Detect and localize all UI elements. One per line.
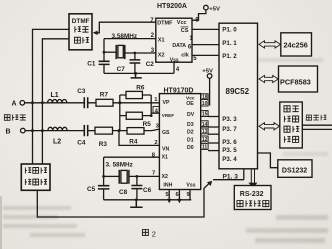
wire A line (25, 102, 160, 104)
svg-text:C4: C4 (77, 140, 86, 147)
wire Vss bottom rail (top crystal) (104, 62, 174, 73)
label 通信 (module) (284, 126, 290, 132)
svg-text:clk: clk (181, 53, 190, 59)
svg-text:24c256: 24c256 (284, 41, 308, 50)
label 驱动 (DTMF box) (74, 37, 80, 43)
label 振铃检 (detect box) (25, 167, 31, 173)
pin 13 box (201, 128, 208, 134)
label 测电路 (detect box) (25, 179, 31, 185)
svg-text:12: 12 (202, 137, 208, 143)
svg-text:Vcc: Vcc (177, 20, 187, 26)
svg-text:P1. 1: P1. 1 (222, 40, 237, 47)
svg-text:1: 1 (189, 36, 193, 42)
label 电话线 (4, 115, 10, 121)
capacitor C2 (134, 53, 136, 73)
wire DTMF drive output to line A (33, 29, 70, 164)
HT9200A pin labels (157, 20, 190, 63)
DS1232 box (278, 160, 312, 178)
svg-text:10: 10 (202, 101, 208, 107)
svg-text:P3. 3: P3. 3 (222, 116, 237, 123)
label 电力 (module) (284, 106, 290, 112)
wire DATA to P1.1 (192, 44, 219, 46)
svg-text:C8: C8 (119, 189, 128, 196)
DTMF drive box (69, 14, 92, 50)
wire 89C52 to DS1232 (258, 153, 278, 168)
svg-text:P1. 0: P1. 0 (222, 26, 237, 33)
svg-text:D2: D2 (187, 129, 194, 135)
svg-text:VP: VP (163, 100, 170, 106)
bleed-through noise (decorative) (3, 206, 71, 210)
ground (top) (131, 73, 142, 78)
capacitor C3 (84, 97, 87, 108)
wire PWDN pin6 stub (178, 190, 180, 200)
power +5V (HT9200A Vcc) (192, 10, 206, 20)
svg-text:X2: X2 (162, 174, 168, 180)
svg-text:P3. 5: P3. 5 (222, 147, 237, 154)
svg-text:7: 7 (150, 18, 154, 24)
wire INH pin5 stub (168, 190, 170, 200)
op: 89C52 MCU U1 (219, 23, 258, 169)
resistor R4 (127, 128, 144, 135)
capacitor C5 (103, 157, 105, 200)
crystal X 3.58MHz (bottom) (104, 175, 120, 177)
wire DTMF drive output to line B (42, 39, 69, 164)
wire HT9200A DTMF pin7 to drive box (97, 22, 155, 33)
caption 图 2 (142, 229, 148, 235)
wire X1 net (bottom crystal) (104, 156, 160, 158)
svg-text:R5: R5 (143, 121, 152, 128)
capacitor C1 (103, 39, 105, 74)
svg-text:P3. 4: P3. 4 (222, 156, 237, 163)
wire D2 to P3.6 (208, 133, 219, 135)
op: HT9200A chip U2 (156, 18, 192, 62)
wire D3 to P3.7 (208, 126, 219, 128)
bus arrow RS-232 (251, 169, 254, 183)
wire X1 net (104, 38, 156, 40)
svg-text:7: 7 (152, 171, 155, 177)
svg-text:R7: R7 (100, 91, 109, 98)
svg-text:15: 15 (202, 112, 208, 118)
svg-text:CS: CS (181, 28, 189, 34)
wire clk to P1.2 (192, 54, 219, 56)
svg-text:14: 14 (202, 122, 208, 128)
svg-text:R6: R6 (136, 85, 145, 92)
HT9170D pin numbers (152, 94, 208, 198)
svg-text:C1: C1 (87, 61, 96, 68)
node A terminal circle (20, 101, 25, 106)
svg-text:D0: D0 (187, 145, 194, 151)
wire D0 to P3.4 (208, 150, 219, 152)
pin 11 box (201, 144, 208, 150)
svg-text:P3. 7: P3. 7 (222, 126, 237, 133)
svg-text:C5: C5 (87, 186, 96, 193)
svg-text:2: 2 (152, 229, 156, 238)
inductor L1 (48, 100, 67, 103)
resistor R6 (120, 95, 151, 116)
junction dots on phone lines (31, 101, 44, 132)
op: HT9170D chip U3 (159, 94, 200, 190)
svg-text:2: 2 (154, 140, 157, 146)
node VP junction vertical (119, 95, 121, 131)
svg-text:DATA: DATA (172, 43, 186, 49)
HT9200A pin numbers (150, 17, 199, 73)
label 信号 (DTMF box) (75, 26, 81, 32)
wire X2 net (125, 52, 156, 54)
label 通信接口 (RS-232 box) (237, 201, 243, 207)
pin 14 box (201, 121, 208, 127)
svg-text:1: 1 (154, 97, 158, 103)
svg-text:DV: DV (187, 112, 195, 118)
power carrier communication module box (280, 102, 303, 148)
RS-232 interface box (234, 186, 271, 210)
label 载波 (module) (284, 116, 290, 122)
capacitor C6 (136, 176, 138, 199)
pin 10 box (201, 99, 208, 106)
svg-text:OE: OE (186, 101, 194, 107)
wire ground rail (bottom) (104, 199, 192, 201)
svg-text:C2: C2 (146, 61, 155, 68)
svg-text:B: B (6, 129, 11, 136)
svg-text:RS-232: RS-232 (240, 191, 264, 198)
svg-text:3. 58MHz: 3. 58MHz (106, 162, 133, 169)
svg-text:P1. 2: P1. 2 (222, 53, 237, 60)
89C52 pin labels (222, 26, 237, 163)
svg-text:13: 13 (202, 129, 208, 135)
svg-text:Vss: Vss (186, 182, 195, 188)
wire power line (double) (302, 125, 332, 129)
svg-text:X2: X2 (158, 53, 165, 59)
wire CS to P1.0 (192, 28, 219, 30)
bus arrow power carrier module (259, 123, 280, 130)
capacitor C4 (84, 125, 87, 136)
wire DV to P3.3 (208, 116, 219, 118)
svg-text:P3. 6: P3. 6 (222, 139, 237, 146)
svg-text:X1: X1 (162, 154, 168, 160)
bus arrow 24c256 (259, 41, 281, 48)
svg-text:3.58MHz: 3.58MHz (112, 33, 138, 40)
wire VREF pin4 (151, 112, 159, 114)
svg-text:PCF8583: PCF8583 (280, 77, 311, 86)
svg-text:C6: C6 (143, 187, 152, 194)
svg-text:D3: D3 (187, 122, 194, 128)
svg-text:18: 18 (202, 94, 208, 100)
resistor R5 (120, 115, 151, 117)
svg-text:89C52: 89C52 (226, 87, 250, 96)
svg-text:5: 5 (193, 56, 197, 62)
PCF8583 RTC box (279, 66, 318, 92)
svg-text:C7: C7 (117, 66, 126, 73)
wire VN pin2 (119, 131, 159, 146)
svg-text:X1: X1 (158, 38, 165, 44)
ring detect box (21, 164, 50, 190)
svg-text:L2: L2 (53, 139, 61, 146)
svg-text:Vss: Vss (170, 57, 179, 63)
svg-text:+5V: +5V (202, 68, 213, 74)
wire X2 net (bottom) (129, 175, 160, 177)
wire ring detect to P1.3 (37, 183, 210, 217)
power +5V (HT9170D) (207, 74, 212, 79)
HT9200A CS overline (181, 26, 189, 28)
HT9170D pin labels (162, 96, 196, 189)
wire B line (25, 129, 159, 131)
label 模块 (module) (284, 136, 290, 142)
pin 15 box (201, 111, 208, 117)
inductor L2 (48, 127, 67, 130)
wire P1.3 stub (213, 169, 244, 180)
bus arrow PCF8583 (259, 75, 278, 82)
svg-text:A: A (12, 101, 17, 108)
resistor R7 (96, 99, 113, 106)
svg-text:VN: VN (162, 146, 169, 152)
svg-text:DS1232: DS1232 (282, 167, 307, 174)
node B terminal circle (21, 128, 26, 133)
svg-text:INH: INH (163, 182, 172, 188)
svg-text:+5V: +5V (209, 6, 220, 12)
svg-text:GS: GS (162, 130, 170, 136)
24c256 EEPROM box (281, 33, 312, 56)
svg-text:DTMF: DTMF (157, 20, 173, 26)
wire Vss pin9 stub (189, 190, 191, 200)
pin 4 number box (153, 106, 159, 112)
pin 12 box (201, 136, 208, 142)
svg-text:4: 4 (176, 67, 180, 73)
resistor R3 (95, 127, 113, 134)
crystal X 3.58MHz (top) (104, 51, 116, 53)
ground (bottom) (130, 200, 142, 207)
svg-text:R4: R4 (129, 138, 138, 145)
svg-text:11: 11 (202, 145, 208, 151)
svg-text:VREF: VREF (162, 113, 174, 118)
svg-text:DTMF: DTMF (72, 18, 90, 25)
label 电力线 (306, 115, 311, 120)
svg-text:L1: L1 (51, 92, 59, 99)
svg-text:P1. 3: P1. 3 (223, 173, 239, 180)
wire D1 to P3.5 (208, 142, 219, 144)
svg-text:D1: D1 (187, 137, 194, 143)
pin 18 box (201, 94, 208, 99)
svg-text:R3: R3 (99, 141, 108, 148)
svg-text:HT9170D: HT9170D (164, 87, 194, 94)
svg-text:C3: C3 (77, 88, 86, 95)
svg-text:HT9200A: HT9200A (157, 3, 187, 10)
